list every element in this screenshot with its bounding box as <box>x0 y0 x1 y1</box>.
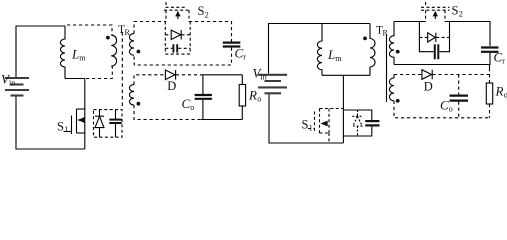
svg-text:m: m <box>335 54 342 63</box>
svg-text:C: C <box>494 50 503 65</box>
wire dashed lower winding bottom to output bottom rail <box>134 105 201 120</box>
battery V_in plates <box>5 78 29 96</box>
dashed box S2 snubber <box>165 22 190 55</box>
wire dashed Cr bottom to loop bottom rail <box>134 48 232 65</box>
arrow of S1 body (right) <box>320 121 327 127</box>
capacitor S2 snubber (vertical plates, dashed leads) <box>165 47 172 49</box>
dashed box S1 snubber <box>94 110 123 138</box>
svg-text:S: S <box>452 4 459 18</box>
transformer upper secondary (right) <box>389 22 394 65</box>
transformer TR upper secondary winding <box>129 34 134 56</box>
wire output bottom (solid part) <box>201 119 242 121</box>
node dot primary polarity <box>106 36 110 40</box>
wire dashed lower winding bottom / output bottom rail (right) <box>394 101 490 118</box>
transformer TR primary winding <box>111 35 116 66</box>
transformer TR lower secondary winding <box>129 85 134 105</box>
wire drain node down to S1 box (right) <box>342 75 344 110</box>
diode S2 snubber (solid symbol, dashed leads) <box>165 34 171 36</box>
transformer lower secondary winding (right) <box>389 78 394 101</box>
capacitor Co <box>202 75 204 94</box>
switch S1 (solid MOSFET) <box>64 131 72 133</box>
arrow of S2 body <box>175 11 180 17</box>
svg-text:2: 2 <box>205 11 209 20</box>
svg-text:R: R <box>248 88 257 103</box>
inductor Lm (right) <box>317 24 322 76</box>
wire S1 box bottom to rail (right) <box>342 136 344 143</box>
battery V_in plates (right) <box>258 75 287 94</box>
transformer TR primary winding (right) <box>370 24 375 76</box>
capacitor S2 snubber (right, vertical plates on box bottom edge) <box>435 44 439 59</box>
wire secondary top rail to S2 (right) <box>394 21 426 23</box>
node dot lower secondary polarity <box>137 102 141 106</box>
svg-text:C: C <box>182 96 191 111</box>
switch S2 (dashed MOSFET, horizontal) <box>164 2 191 22</box>
resistor Ro <box>241 75 243 85</box>
svg-text:S: S <box>57 120 64 134</box>
wire battery negative to bottom rail (right) <box>269 94 343 143</box>
node dot lower secondary (right) <box>396 99 400 103</box>
capacitor on box edge (right S1) <box>365 121 379 125</box>
diode S1 body (dashed, right) <box>352 110 362 136</box>
wire dashed lower winding top lead <box>134 75 165 85</box>
svg-text:C: C <box>235 46 244 61</box>
svg-text:D: D <box>167 79 176 93</box>
arrow of S2 body (right) <box>433 11 438 17</box>
svg-text:R: R <box>495 84 504 99</box>
capacitor Cr plates (right) <box>481 48 499 52</box>
arrow of S1 body <box>77 117 84 123</box>
svg-text:R: R <box>383 29 389 38</box>
node dot primary polarity (right) <box>363 37 367 41</box>
capacitor Co (right) dashed leads <box>458 75 460 95</box>
diode S1 body (solid) <box>99 110 101 117</box>
transformer core (solid, right) <box>386 34 388 102</box>
wire dashed D cathode across (right) <box>433 74 490 76</box>
node dot upper secondary polarity <box>137 50 141 54</box>
wire dashed primary bottom return <box>86 66 112 79</box>
svg-text:r: r <box>502 57 505 66</box>
inductor Lm (magnetizing inductance) <box>60 26 65 79</box>
capacitor S1 output cap <box>115 110 117 119</box>
svg-text:D: D <box>424 80 433 94</box>
svg-text:in: in <box>9 79 15 88</box>
svg-text:S: S <box>198 4 205 18</box>
wire dashed primary top (transformer model box top) <box>67 25 112 36</box>
wire dashed lower winding top lead (right) <box>393 75 395 79</box>
svg-text:L: L <box>71 47 79 62</box>
wire Lm bottom to S1 drain node <box>65 78 85 80</box>
svg-text:r: r <box>243 53 246 62</box>
wire Cr bottom / secondary bottom rail (right) <box>394 53 490 65</box>
wire right rail top (battery to corner and across) <box>269 24 371 74</box>
resistor Ro (right) with dashed leads <box>489 65 491 69</box>
svg-text:S: S <box>302 118 309 132</box>
diode S2 snubber (right, solid symbol, dashed leads) <box>419 36 427 38</box>
svg-text:C: C <box>440 98 449 113</box>
wire output top (Co node to Ro) <box>201 74 242 76</box>
svg-text:1: 1 <box>309 124 313 133</box>
svg-text:1: 1 <box>64 125 68 134</box>
svg-text:in: in <box>261 73 267 82</box>
wire left rail top (battery to top-left corner) <box>16 26 65 77</box>
svg-text:R: R <box>125 28 131 37</box>
wire Lm bottom across to primary bottom <box>322 74 370 76</box>
wire S2 to Cr (right) <box>445 22 490 47</box>
wire S1 source to bottom rail <box>84 133 86 149</box>
transformer core (dashed) <box>121 32 123 106</box>
diode D (solid symbol) <box>165 70 175 80</box>
solid box S1 snubber (right) <box>343 110 371 120</box>
wire dashed S2 to Cr top <box>189 22 232 42</box>
wire dashed D cathode to output node <box>176 74 201 76</box>
solid box S2 snubber (right) <box>419 22 433 52</box>
svg-text:o: o <box>257 95 261 104</box>
diode D (right) <box>422 70 432 80</box>
svg-text:m: m <box>79 54 86 63</box>
svg-text:o: o <box>449 105 453 114</box>
capacitor Cr plates <box>223 43 241 47</box>
wire dashed upper secondary top lead <box>134 22 166 34</box>
wire drain (node to S1) <box>84 79 86 110</box>
svg-text:L: L <box>327 47 335 62</box>
wire battery negative down to bottom rail <box>16 97 85 150</box>
node dot upper secondary (right) <box>396 50 400 54</box>
svg-text:2: 2 <box>459 10 463 19</box>
svg-text:o: o <box>190 103 194 112</box>
switch S2 (dashed MOSFET, right) <box>421 2 450 22</box>
wire dashed D loop top (right) <box>394 74 422 76</box>
switch S1 (dashed MOSFET, right) <box>308 109 343 144</box>
